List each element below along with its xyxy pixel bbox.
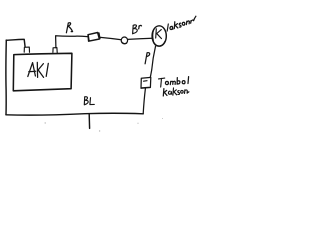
wire: Br circle to horn — [128, 38, 153, 39]
faint paper specks — [45, 118, 164, 132]
resistor R: body — [88, 33, 100, 42]
label R — [66, 23, 72, 33]
label BL — [84, 97, 88, 105]
label klakson (below Tombol) — [163, 89, 167, 96]
switch tombol klakson: body — [141, 77, 151, 88]
label klakson (diagonal text right of horn) — [167, 24, 168, 31]
horn klakson: letter K inside — [156, 29, 162, 39]
battery AKI: case — [13, 53, 72, 91]
wire: switch bottom to bottom rail — [143, 89, 145, 114]
label P — [145, 53, 150, 64]
label Br — [133, 25, 138, 34]
battery AKI: left terminal — [24, 47, 29, 52]
wire: left vertical rail — [5, 40, 7, 115]
wire: horn bottom down to switch — [150, 46, 155, 77]
horn klakson: body circle — [152, 26, 166, 46]
battery AKI: label I — [46, 63, 48, 76]
wire: bottom rail — [6, 113, 143, 115]
battery AKI: label K — [37, 62, 43, 77]
wire: resistor to Br circle — [99, 37, 121, 40]
label Tombol — [159, 78, 165, 87]
battery AKI: right terminal — [53, 48, 57, 53]
wire: stub below bottom rail — [88, 114, 90, 128]
battery AKI: label A — [28, 63, 36, 77]
switch tombol klakson: contact dash — [144, 80, 148, 83]
wire: battery + terminal up and right to resistor — [56, 36, 88, 48]
connector Br: circle — [121, 37, 127, 44]
wire: top-left horizontal from left rail to battery + terminal — [6, 39, 25, 46]
